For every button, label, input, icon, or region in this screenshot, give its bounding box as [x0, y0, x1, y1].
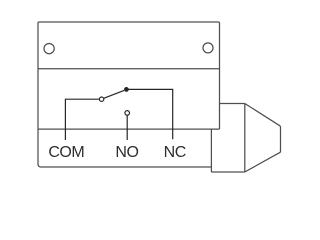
svg-text:NO: NO: [115, 144, 138, 161]
svg-text:NC: NC: [164, 144, 186, 161]
svg-text:COM: COM: [48, 144, 84, 161]
